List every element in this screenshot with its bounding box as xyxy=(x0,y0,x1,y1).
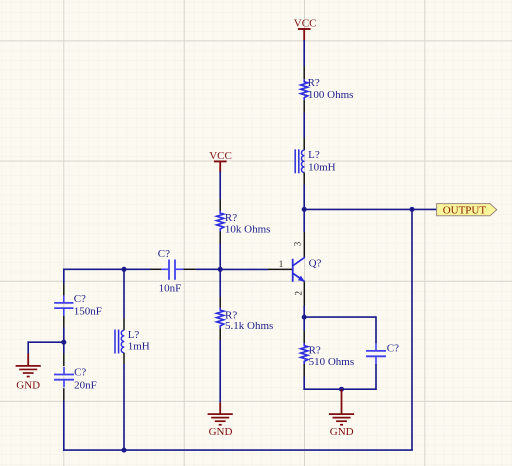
svg-text:C?: C? xyxy=(74,293,86,305)
wire L2 branch top xyxy=(123,269,125,318)
ground GND (emitter RC) xyxy=(329,389,354,438)
pin C1.2 xyxy=(63,316,65,328)
wire R4 to bottom link xyxy=(303,377,305,391)
pin C3.1 xyxy=(151,268,162,270)
svg-text:R?: R? xyxy=(309,344,321,356)
port OUTPUT xyxy=(437,204,497,217)
svg-text:R?: R? xyxy=(225,212,237,224)
svg-text:2: 2 xyxy=(293,291,303,296)
svg-text:3: 3 xyxy=(293,241,303,246)
wire output branch down right side xyxy=(411,209,413,450)
svg-text:C?: C? xyxy=(158,248,170,260)
wire VCC2 to R2 xyxy=(219,172,221,200)
pin R3.1 xyxy=(219,297,221,308)
svg-text:Q?: Q? xyxy=(309,257,322,269)
resistor R? 510 Ohms xyxy=(301,343,355,368)
pin R1.2 xyxy=(303,100,305,112)
junction base node xyxy=(218,267,223,272)
wire L2 to bottom rail xyxy=(123,364,125,450)
pin R1.1 xyxy=(303,67,305,80)
svg-text:10mH: 10mH xyxy=(308,161,336,173)
wire R1 to L1 xyxy=(303,113,305,139)
svg-text:L?: L? xyxy=(308,149,320,161)
wire C1 to tap node xyxy=(63,328,65,354)
wire cap branch upper xyxy=(375,316,377,343)
wire emitter to RC node xyxy=(303,306,305,332)
svg-text:10nF: 10nF xyxy=(159,283,182,295)
svg-text:GND: GND xyxy=(16,379,40,391)
resistor R? 10k Ohms xyxy=(217,211,271,236)
svg-text:VCC: VCC xyxy=(209,150,232,162)
svg-text:VCC: VCC xyxy=(294,18,317,30)
wire R3 to GND xyxy=(219,340,221,402)
pin R2.1 xyxy=(219,199,221,211)
wire C2 to bottom rail xyxy=(63,401,65,451)
power symbol VCC (bias, over R? 10k) xyxy=(209,150,232,172)
ground GND (bias divider) xyxy=(208,402,233,438)
resistor R? 5.1k Ohms xyxy=(217,308,274,333)
wire base node to Q1 base pin xyxy=(220,268,268,270)
pin C3.2 xyxy=(184,268,196,270)
pin R4.1 xyxy=(303,331,305,343)
svg-text:100 Ohms: 100 Ohms xyxy=(308,89,354,101)
power symbol VCC (top, over R? 100 Ohms) xyxy=(294,18,317,41)
capacitor C? 150nF xyxy=(54,293,102,318)
pin R4.2 xyxy=(303,364,305,377)
junction emitter RC node xyxy=(302,315,307,320)
inductor L? 1mH xyxy=(115,329,150,353)
pin L2.2 xyxy=(123,353,125,364)
wire L1 to collector node xyxy=(303,185,305,233)
capacitor C? (emitter bypass) xyxy=(366,343,399,364)
svg-text:10k Ohms: 10k Ohms xyxy=(225,223,271,235)
svg-text:GND: GND xyxy=(330,426,354,438)
svg-text:GND: GND xyxy=(209,426,233,438)
svg-text:510 Ohms: 510 Ohms xyxy=(309,356,355,368)
pin Q1.2 emitter xyxy=(303,282,305,306)
inductor L? 10mH xyxy=(295,149,335,173)
svg-text:OUTPUT: OUTPUT xyxy=(443,205,487,217)
wire collector node to output port xyxy=(303,208,436,210)
svg-text:5.1k Ohms: 5.1k Ohms xyxy=(225,320,273,332)
wire VCC1 to R1 top pin xyxy=(303,40,305,67)
pin L2.1 xyxy=(123,318,125,330)
junction output branch xyxy=(410,207,415,212)
svg-text:C?: C? xyxy=(387,343,399,355)
capacitor C? 20nF xyxy=(54,367,97,392)
svg-text:1: 1 xyxy=(279,259,284,269)
pin C1.1 xyxy=(63,284,65,296)
svg-text:1mH: 1mH xyxy=(128,341,150,353)
wire left branch top xyxy=(63,269,65,284)
transistor Q? NPN xyxy=(293,257,322,282)
pin L1.1 xyxy=(303,138,305,150)
wire RC bottom link xyxy=(303,388,376,390)
svg-text:R?: R? xyxy=(308,77,320,89)
wire base rail left of C3 xyxy=(64,268,151,270)
wire bottom rail xyxy=(64,449,413,451)
wire cap branch lower xyxy=(375,364,377,389)
svg-text:150nF: 150nF xyxy=(74,306,102,318)
junction collector/output node xyxy=(302,207,307,212)
wire C3 to base node xyxy=(196,268,221,270)
pin Q1.1 base xyxy=(268,268,292,270)
svg-text:L?: L? xyxy=(128,329,140,341)
wire RC top link xyxy=(303,316,376,318)
pin R2.2 xyxy=(219,232,221,244)
ground GND (tank tap) xyxy=(16,354,41,392)
pin R3.2 xyxy=(219,329,221,341)
svg-text:C?: C? xyxy=(74,367,86,379)
pin Q1.3 collector xyxy=(303,232,305,257)
pin L1.2 xyxy=(303,173,305,185)
pin C2.1 xyxy=(63,354,65,367)
wire tap to ground stem xyxy=(28,341,64,343)
wire R2 to base node xyxy=(219,244,221,298)
pin C2.2 xyxy=(63,388,65,400)
junction bottom rail / L2 xyxy=(122,448,127,453)
svg-text:20nF: 20nF xyxy=(74,379,97,391)
junction tank tap node xyxy=(61,340,66,345)
junction RC ground node xyxy=(339,387,344,392)
capacitor C? 10nF (coupling) xyxy=(158,248,184,294)
junction base rail / L2 xyxy=(122,267,127,272)
resistor R? 100 Ohms xyxy=(301,77,354,101)
